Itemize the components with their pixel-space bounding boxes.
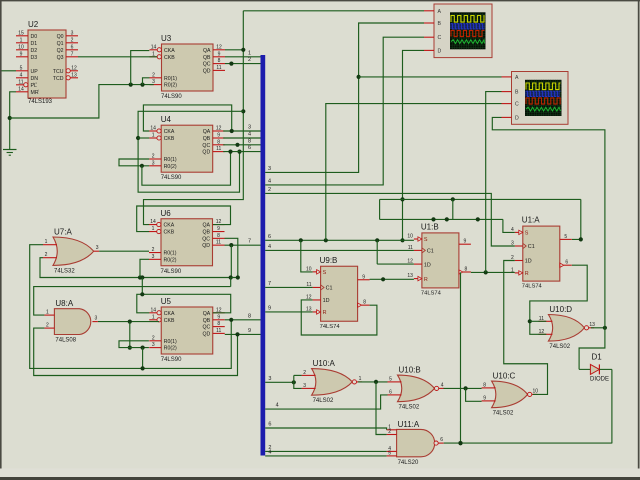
wire net to U9 Qbar loop — [376, 240, 378, 264]
wire U4.QD to bus — [223, 145, 260, 152]
svg-text:7: 7 — [248, 239, 251, 245]
wire U10:D out — [591, 326, 607, 330]
svg-text:R0(1): R0(1) — [164, 339, 177, 345]
wire U3.QA riser to scope1.A and U4.CKB — [225, 49, 243, 51]
wire bus exit 3 to scope1.B scope2.A — [265, 23, 424, 172]
svg-text:U5: U5 — [161, 297, 172, 306]
svg-text:8: 8 — [217, 321, 220, 327]
svg-text:6: 6 — [248, 145, 251, 151]
svg-text:R0(2): R0(2) — [164, 346, 177, 352]
svg-text:9: 9 — [268, 306, 271, 312]
svg-text:U4: U4 — [161, 115, 172, 124]
wire horizontals y=199.4 — [380, 197, 581, 201]
svg-text:2: 2 — [71, 37, 74, 43]
wire U8 out to U5 resets — [128, 322, 132, 350]
wire U8 pin2 to U5.QD loop — [34, 328, 238, 375]
svg-text:QB: QB — [203, 136, 211, 142]
window frame right border — [638, 0, 640, 477]
wire U6.QA to U6.CKB loop — [137, 206, 231, 232]
svg-text:2: 2 — [46, 323, 49, 329]
svg-text:U9:B: U9:B — [320, 256, 338, 265]
svg-text:2: 2 — [152, 72, 155, 78]
wire U9.S tap — [301, 240, 313, 272]
wire U1:B.1D feed — [377, 263, 414, 265]
svg-text:QA: QA — [203, 223, 211, 229]
svg-text:QC: QC — [202, 236, 210, 242]
svg-text:1: 1 — [46, 310, 49, 316]
svg-text:74LS02: 74LS02 — [549, 344, 570, 350]
svg-text:2: 2 — [152, 247, 155, 253]
counter U5 74LS90 — [149, 297, 225, 363]
svg-text:2: 2 — [268, 187, 271, 193]
bus vertical — [261, 55, 266, 456]
wire riser x=243.3 scope1.A to U6.CKA — [144, 11, 246, 225]
wire U1:A.Qbar to U10:D — [528, 265, 588, 334]
svg-text:74LS74: 74LS74 — [421, 290, 442, 296]
wire branch to U4.CKB and U4.QD bracket — [136, 111, 243, 192]
svg-text:R: R — [424, 277, 428, 283]
wire U4.QA to bus — [223, 125, 260, 134]
svg-text:74LS193: 74LS193 — [28, 99, 53, 105]
svg-text:74LS08: 74LS08 — [55, 338, 76, 344]
wire bus exit 4b to U1:B.C1 — [265, 244, 414, 251]
wire bus exit 4 to U11 pin5 — [265, 449, 386, 456]
svg-text:7: 7 — [71, 51, 74, 57]
svg-text:10: 10 — [18, 44, 24, 50]
svg-text:5: 5 — [388, 450, 391, 456]
svg-text:13: 13 — [71, 72, 77, 78]
svg-text:74LS90: 74LS90 — [161, 94, 182, 100]
wire U10:B out to U10:C pin8 — [444, 386, 482, 390]
svg-text:D2: D2 — [31, 48, 38, 54]
svg-text:1: 1 — [45, 239, 48, 245]
svg-text:CKB: CKB — [164, 55, 175, 61]
wire U6.RO2 to U5 hat connector — [140, 278, 144, 297]
svg-text:Q2: Q2 — [57, 48, 64, 54]
svg-text:QB: QB — [203, 55, 211, 61]
svg-text:CKB: CKB — [164, 136, 175, 142]
svg-text:C1: C1 — [528, 244, 535, 250]
svg-text:QD: QD — [202, 243, 210, 249]
wire bus exit 6 to U11 pin1 — [265, 422, 386, 430]
svg-text:Q0: Q0 — [57, 34, 64, 40]
wire U4.QC to bus — [223, 138, 260, 147]
flip-flop U1:A 74LS74 — [511, 216, 572, 290]
wire scope2.D net — [492, 117, 605, 327]
counter U3 74LS90 — [150, 34, 226, 100]
svg-text:U10:B: U10:B — [399, 366, 421, 375]
svg-text:4: 4 — [276, 403, 279, 409]
svg-text:TCD: TCD — [53, 76, 64, 82]
svg-text:74LS32: 74LS32 — [54, 268, 75, 274]
wire bus exit 9 to U9.R — [265, 306, 312, 312]
svg-text:MR: MR — [31, 90, 39, 96]
svg-text:Q1: Q1 — [57, 41, 64, 47]
svg-text:U11:A: U11:A — [398, 420, 420, 429]
svg-text:D3: D3 — [31, 55, 38, 61]
svg-text:8: 8 — [363, 300, 366, 306]
wire U6.QD loop to U7 pin2 — [40, 245, 233, 279]
svg-text:QC: QC — [202, 143, 210, 149]
wire U5 resets tie — [119, 341, 149, 350]
svg-text:U2: U2 — [28, 20, 39, 29]
svg-text:9: 9 — [248, 328, 251, 334]
wire U6.QD to bus — [225, 239, 261, 248]
svg-text:U6: U6 — [161, 209, 172, 218]
svg-text:14: 14 — [150, 307, 156, 313]
window bottom strip — [0, 469, 640, 478]
svg-text:R0(1): R0(1) — [164, 251, 177, 257]
svg-text:9: 9 — [464, 239, 467, 245]
svg-text:8: 8 — [248, 313, 251, 319]
svg-text:Q3: Q3 — [57, 55, 64, 61]
node ground junction — [8, 116, 12, 120]
window bottom border — [0, 477, 640, 480]
gate U10:C 74LS02 — [482, 372, 539, 417]
wire bus exit 7 to U9.C1 — [265, 281, 312, 287]
svg-text:5: 5 — [564, 234, 567, 240]
wire bus exit 3 to U10:A — [265, 376, 296, 385]
svg-text:2: 2 — [248, 57, 251, 63]
svg-text:DIODE: DIODE — [590, 377, 609, 383]
gate U11:A 74LS20 — [387, 420, 444, 466]
svg-text:1: 1 — [152, 226, 155, 232]
svg-text:CKB: CKB — [164, 318, 175, 324]
svg-text:3: 3 — [95, 316, 98, 322]
svg-text:74LS90: 74LS90 — [161, 175, 182, 181]
wire U3.QC to bus — [225, 57, 261, 66]
wire corner — [379, 199, 381, 219]
svg-text:CKB: CKB — [164, 230, 175, 236]
svg-text:11: 11 — [18, 79, 23, 85]
wire U9 Qbar to 1D loop — [301, 300, 377, 335]
svg-text:3: 3 — [268, 376, 271, 382]
svg-text:C1: C1 — [326, 286, 333, 292]
svg-text:6: 6 — [71, 44, 74, 50]
window frame top border — [0, 0, 640, 1]
svg-text:A: A — [515, 75, 519, 81]
wire U2.Q3 to U3.CKB — [78, 56, 157, 58]
svg-text:8: 8 — [217, 233, 220, 239]
svg-text:14: 14 — [151, 44, 157, 50]
wire D1 to U11 output net — [611, 369, 613, 443]
oscilloscope SCOPE1 — [424, 4, 492, 58]
svg-text:3: 3 — [152, 342, 155, 348]
svg-text:D1: D1 — [592, 353, 603, 362]
svg-text:6: 6 — [389, 389, 392, 395]
wire ground rail to U3 resets — [10, 83, 154, 119]
svg-text:D: D — [438, 48, 442, 54]
wire U4.QB to bus — [223, 132, 260, 139]
svg-text:B: B — [515, 90, 519, 96]
svg-text:74LS20: 74LS20 — [398, 460, 419, 466]
svg-text:9: 9 — [483, 395, 486, 401]
svg-text:R0(2): R0(2) — [164, 83, 177, 89]
svg-text:74LS90: 74LS90 — [161, 269, 182, 275]
svg-text:4: 4 — [268, 449, 271, 455]
svg-text:12: 12 — [216, 126, 222, 132]
svg-text:QA: QA — [203, 48, 211, 54]
wire UP input from left edge — [0, 70, 16, 72]
svg-text:4: 4 — [268, 244, 271, 250]
svg-text:9: 9 — [217, 314, 220, 320]
svg-text:4: 4 — [248, 132, 251, 138]
svg-text:R0(2): R0(2) — [164, 164, 177, 170]
svg-text:4: 4 — [20, 72, 23, 78]
svg-text:6: 6 — [268, 234, 271, 240]
svg-text:3: 3 — [152, 254, 155, 260]
gate U10:A 74LS02 — [302, 359, 362, 404]
wire U10:A input split — [294, 374, 302, 376]
svg-text:2: 2 — [152, 335, 155, 341]
wire scope1.D riser — [400, 50, 424, 242]
wire U5.QB to bus — [225, 313, 261, 322]
svg-text:10: 10 — [533, 388, 539, 394]
svg-text:74LS02: 74LS02 — [313, 398, 334, 404]
svg-text:5: 5 — [20, 65, 23, 71]
svg-text:1: 1 — [152, 133, 155, 139]
wire U10:A out to U10:B pin5 — [358, 380, 387, 384]
svg-text:U10:A: U10:A — [313, 359, 336, 368]
svg-text:2: 2 — [152, 154, 155, 160]
diode D1 — [579, 353, 612, 383]
wire U4 hat QA to CKA — [143, 105, 231, 131]
wire U6.R0(2) branch — [140, 259, 149, 277]
wire U5.R0 branch to loop — [141, 348, 145, 371]
svg-text:4: 4 — [268, 178, 271, 184]
svg-text:12: 12 — [216, 44, 222, 50]
svg-text:1D: 1D — [323, 298, 330, 304]
wire bus exit 4 to U10:B pin6 — [265, 395, 387, 409]
svg-text:14: 14 — [18, 86, 24, 92]
svg-text:3: 3 — [303, 383, 306, 389]
window frame left border — [0, 0, 2, 477]
svg-text:R: R — [525, 271, 529, 277]
wire scope2.C riser — [326, 104, 502, 241]
svg-text:C: C — [515, 102, 519, 108]
svg-text:U3: U3 — [161, 34, 172, 43]
svg-text:D: D — [515, 115, 519, 121]
svg-text:9: 9 — [362, 274, 365, 280]
oscilloscope SCOPE2 — [502, 72, 569, 125]
counter U6 74LS90 — [149, 209, 225, 275]
wire loop connector — [230, 278, 232, 287]
wire v452 — [452, 199, 454, 219]
svg-text:R: R — [323, 310, 327, 316]
svg-text:QA: QA — [203, 129, 211, 135]
svg-text:S: S — [323, 270, 327, 276]
svg-text:15: 15 — [18, 30, 24, 36]
wire U10:D pin11 — [530, 320, 547, 322]
wire U5.QD to bus — [225, 328, 261, 337]
svg-text:11: 11 — [216, 146, 221, 152]
svg-text:3: 3 — [268, 166, 271, 172]
svg-text:7: 7 — [268, 281, 271, 287]
svg-text:5: 5 — [389, 376, 392, 382]
svg-text:QD: QD — [202, 331, 210, 337]
svg-text:8: 8 — [465, 267, 468, 273]
wire U5 hat QA to CKA — [137, 294, 231, 313]
wire U10:A input split2 — [294, 375, 302, 388]
svg-text:74LS02: 74LS02 — [399, 405, 420, 411]
svg-text:S: S — [525, 231, 529, 237]
svg-text:14: 14 — [150, 219, 156, 225]
svg-text:9: 9 — [20, 51, 23, 57]
wire U8 output to U5.CKB — [98, 320, 159, 324]
gate U10:D 74LS02 — [538, 305, 595, 350]
svg-text:9: 9 — [217, 226, 220, 232]
svg-text:S: S — [424, 237, 428, 243]
svg-text:D1: D1 — [31, 41, 38, 47]
svg-text:3: 3 — [152, 160, 155, 166]
wire U7 output to U6.R0(1) — [99, 250, 149, 252]
svg-text:B: B — [438, 21, 442, 27]
svg-text:R0(1): R0(1) — [164, 157, 177, 163]
wire U3.QB to bus — [225, 50, 261, 57]
svg-text:QB: QB — [203, 230, 211, 236]
gate U8:A 74LS08 — [44, 299, 98, 343]
svg-text:R0(1): R0(1) — [164, 76, 177, 82]
svg-text:2: 2 — [303, 370, 306, 376]
svg-text:13: 13 — [589, 322, 595, 328]
wire scope2.A — [359, 76, 502, 78]
svg-text:A: A — [438, 9, 442, 15]
svg-text:11: 11 — [216, 328, 221, 334]
wire U1:A.1D to U10:C out — [504, 261, 548, 395]
svg-text:12: 12 — [71, 65, 77, 71]
wire bus exit 2 to U11 pin4 — [265, 445, 386, 452]
wire U1:A.Q to scope1.D net — [572, 199, 583, 241]
svg-text:6: 6 — [440, 437, 443, 443]
wire bus exit 4 to scope1.C — [265, 37, 424, 185]
svg-text:2: 2 — [388, 429, 391, 435]
wire U3.CKA feed — [131, 51, 150, 85]
svg-text:3: 3 — [248, 125, 251, 131]
svg-text:QD: QD — [202, 150, 210, 156]
wire scope2.B riser — [486, 92, 502, 273]
svg-text:74LS02: 74LS02 — [493, 411, 514, 417]
gate U10:B 74LS02 — [388, 366, 445, 411]
svg-text:1D: 1D — [525, 259, 532, 265]
wire U10:C pin9 tap — [466, 388, 482, 401]
svg-text:8: 8 — [483, 382, 486, 388]
svg-text:U7:A: U7:A — [54, 228, 72, 237]
wire U8 pin1 loop — [34, 287, 231, 316]
svg-text:QD: QD — [203, 68, 211, 74]
flip-flop U1:B 74LS74 — [407, 222, 471, 296]
wire U2.MR to ground node — [10, 92, 16, 118]
wire U4.CKB stub link — [138, 137, 149, 139]
svg-text:CKA: CKA — [164, 311, 175, 317]
svg-text:8: 8 — [217, 139, 220, 145]
svg-text:6: 6 — [268, 422, 271, 428]
svg-text:74LS74: 74LS74 — [320, 324, 341, 330]
svg-text:U8:A: U8:A — [55, 299, 73, 308]
wire U11 out to D1 net — [444, 441, 612, 445]
ground — [3, 118, 17, 155]
svg-text:14: 14 — [150, 126, 156, 132]
counter U2 74LS193 — [16, 20, 78, 105]
svg-text:10: 10 — [407, 234, 413, 240]
wire U1:A.S feed — [503, 219, 515, 232]
svg-text:11: 11 — [216, 65, 221, 71]
svg-text:8: 8 — [248, 138, 251, 144]
svg-text:DN: DN — [31, 76, 39, 82]
svg-text:C1: C1 — [427, 249, 434, 255]
svg-text:CKA: CKA — [164, 48, 175, 54]
wire U6.QC branch — [225, 238, 240, 279]
wire U10:A out branch to U11 pin2 — [376, 382, 387, 435]
svg-text:QA: QA — [203, 311, 211, 317]
svg-text:U10:D: U10:D — [549, 305, 572, 314]
svg-text:2: 2 — [45, 252, 48, 258]
wire U7 pin1 from U5.QB loop — [30, 245, 232, 369]
svg-text:R0(2): R0(2) — [164, 257, 177, 263]
svg-text:3: 3 — [71, 30, 74, 36]
svg-text:3: 3 — [96, 245, 99, 251]
svg-text:13: 13 — [407, 273, 413, 279]
svg-text:1: 1 — [248, 50, 251, 56]
svg-text:U10:C: U10:C — [493, 372, 516, 381]
gate U7:A 74LS32 — [43, 228, 99, 275]
svg-text:QC: QC — [202, 325, 210, 331]
svg-text:CKA: CKA — [164, 223, 175, 229]
wire U1:B.Qbar to U1:A.R — [471, 270, 515, 274]
svg-text:74LS90: 74LS90 — [161, 357, 182, 363]
svg-text:1: 1 — [20, 37, 23, 43]
svg-text:1: 1 — [359, 376, 362, 382]
flip-flop U9:B 74LS74 — [306, 256, 370, 330]
svg-text:D0: D0 — [31, 34, 38, 40]
svg-text:CKA: CKA — [164, 129, 175, 135]
wire U4 resets to U4.QD bracket — [142, 150, 233, 186]
counter U4 74LS90 — [149, 115, 225, 181]
wire U9.Q to U1:B.R — [370, 277, 414, 281]
svg-text:8: 8 — [218, 58, 221, 64]
svg-text:1: 1 — [152, 314, 155, 320]
wire horizontal y=219.4 — [380, 217, 503, 221]
svg-text:6: 6 — [565, 260, 568, 266]
svg-text:QC: QC — [203, 62, 211, 68]
svg-text:74LS74: 74LS74 — [522, 284, 543, 290]
wire bus exit 6 to U1:B.S — [265, 234, 414, 243]
svg-text:11: 11 — [216, 240, 221, 246]
svg-text:9: 9 — [218, 51, 221, 57]
svg-text:U1:B: U1:B — [421, 222, 439, 231]
wire U3.R0(1) branch — [143, 78, 150, 85]
wire U4 resets tie — [119, 159, 149, 168]
svg-text:U1:A: U1:A — [522, 216, 540, 225]
wire U10C input riser — [458, 272, 462, 445]
svg-text:9: 9 — [217, 133, 220, 139]
wire U10:D to D1 — [579, 328, 605, 370]
svg-text:4: 4 — [441, 382, 444, 388]
svg-text:PL: PL — [31, 83, 37, 89]
wire bus exit 2 to U1:A.C1 — [265, 187, 515, 246]
svg-text:1D: 1D — [424, 262, 431, 268]
svg-text:C: C — [438, 35, 442, 41]
svg-text:QB: QB — [203, 318, 211, 324]
svg-text:TCU: TCU — [53, 69, 64, 75]
wire scope1.A — [243, 10, 424, 12]
svg-text:UP: UP — [31, 69, 39, 75]
